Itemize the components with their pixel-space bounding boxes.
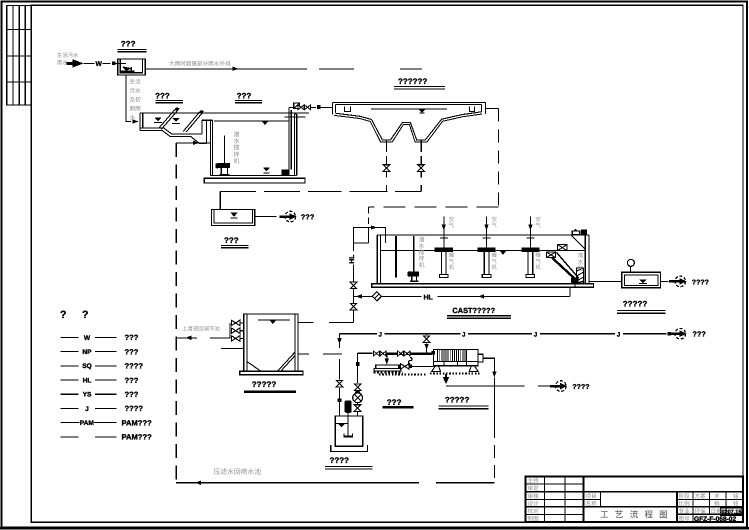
svg-text:机: 机 bbox=[492, 264, 498, 271]
supernatant return line bbox=[176, 337, 197, 339]
svg-text:???: ??? bbox=[125, 390, 139, 399]
tap water junction square bbox=[668, 332, 672, 336]
polymer pipe to press bbox=[358, 352, 373, 354]
sludge sump outlet pipe bbox=[255, 216, 277, 218]
adjusting tank floor bbox=[211, 175, 297, 177]
svg-text:工艺流程图: 工艺流程图 bbox=[600, 510, 674, 520]
svg-text:???: ??? bbox=[155, 91, 170, 100]
CAST tank rim bbox=[377, 234, 589, 236]
svg-text:J: J bbox=[85, 406, 89, 413]
svg-text:名称: 名称 bbox=[586, 501, 598, 508]
tap water main J bbox=[340, 333, 667, 335]
svg-text:项目: 项目 bbox=[586, 493, 597, 500]
sedimentation tank right wall bbox=[484, 102, 486, 114]
svg-text:气: 气 bbox=[449, 258, 455, 265]
decant valve header bbox=[229, 323, 231, 339]
HL propeller pump symbol bbox=[372, 292, 381, 301]
aerator 1 label bbox=[449, 252, 455, 271]
svg-text:生活污水: 生活污水 bbox=[57, 52, 79, 59]
thickener hopper diagonals bbox=[247, 362, 261, 372]
svg-text:???: ??? bbox=[387, 398, 402, 407]
svg-text:???: ??? bbox=[125, 333, 139, 342]
svg-text:W: W bbox=[84, 335, 91, 342]
svg-text:搅: 搅 bbox=[234, 144, 240, 152]
CAST right wall bbox=[584, 235, 586, 284]
svg-text:HL: HL bbox=[83, 377, 92, 384]
sedimentation tank rim bbox=[333, 101, 486, 103]
svg-text:YS: YS bbox=[83, 392, 92, 399]
adjusting tank inlet drop box bbox=[201, 120, 203, 134]
aerator 2 label bbox=[492, 252, 498, 271]
right weir box bbox=[469, 107, 474, 112]
adjusting tank overflow stub bbox=[285, 116, 306, 118]
metering pump suction bbox=[357, 412, 359, 416]
press filtrate pipe bbox=[483, 358, 495, 373]
channel water level 1 bbox=[154, 117, 161, 121]
svg-text:J: J bbox=[534, 332, 538, 339]
svg-text:图号: 图号 bbox=[679, 516, 691, 523]
svg-text:器: 器 bbox=[578, 266, 584, 273]
svg-text:?????: ????? bbox=[623, 300, 648, 309]
svg-text:空: 空 bbox=[535, 216, 540, 223]
press motor bbox=[478, 354, 483, 362]
decanter label vertical bbox=[578, 253, 584, 273]
svg-text:???: ??? bbox=[121, 40, 136, 49]
svg-text:压滤水回喷水池: 压滤水回喷水池 bbox=[214, 468, 262, 476]
svg-text:曝: 曝 bbox=[449, 252, 455, 259]
svg-text:校对: 校对 bbox=[528, 508, 540, 515]
low level mark near pump bbox=[263, 167, 270, 171]
pump riser pipe bbox=[288, 108, 290, 170]
svg-text:J: J bbox=[617, 332, 621, 339]
dosing tank cradle bbox=[331, 445, 368, 451]
metering pump bbox=[353, 393, 363, 403]
svg-text:SQ: SQ bbox=[82, 363, 92, 370]
svg-text:污水: 污水 bbox=[130, 88, 142, 95]
title block role labels bbox=[528, 478, 740, 523]
svg-text:曝: 曝 bbox=[535, 252, 541, 259]
svg-text:铭: 铭 bbox=[733, 501, 739, 508]
svg-text:气: 气 bbox=[535, 258, 541, 265]
hopper drain 2 bbox=[420, 140, 422, 152]
CAST mixer mast bbox=[413, 236, 415, 272]
svg-text:?????: ????? bbox=[445, 396, 470, 405]
svg-text:?????: ????? bbox=[252, 380, 277, 389]
sludge sump discharge symbol bbox=[279, 211, 296, 222]
svg-text:???: ??? bbox=[224, 236, 239, 245]
CAST bottom pump bbox=[571, 277, 579, 283]
sedimentation tank hopper floor outer bbox=[334, 114, 482, 142]
svg-text:J: J bbox=[462, 332, 466, 339]
svg-text:0207.15: 0207.15 bbox=[722, 510, 742, 516]
svg-text:大雨时超量部分雨水外排: 大雨时超量部分雨水外排 bbox=[169, 61, 231, 68]
thickener sludge inlet stub bbox=[221, 347, 244, 349]
legend row W line bbox=[61, 336, 79, 338]
svg-text:曝: 曝 bbox=[492, 252, 498, 259]
agitator motor bbox=[345, 401, 352, 413]
svg-text:空: 空 bbox=[449, 216, 454, 223]
pipe inside well bbox=[118, 62, 126, 64]
sedimentation tank hopper floor inner bbox=[335, 112, 481, 140]
downpipe label vertical bbox=[130, 79, 142, 122]
legend row PAM line bbox=[61, 422, 80, 424]
CAST effluent pipe bbox=[589, 280, 622, 282]
svg-text:???: ??? bbox=[125, 347, 139, 356]
svg-text:气: 气 bbox=[492, 258, 498, 265]
svg-text:水: 水 bbox=[578, 259, 584, 266]
downpipe from screen well bbox=[126, 75, 131, 121]
screw pump base bbox=[374, 371, 404, 373]
thickener sludge outlet bbox=[298, 353, 309, 355]
svg-text:PAM???: PAM??? bbox=[122, 418, 153, 427]
svg-text:上清液回调节池: 上清液回调节池 bbox=[182, 326, 220, 333]
svg-text:HL: HL bbox=[424, 294, 434, 301]
svg-text:空: 空 bbox=[492, 216, 497, 223]
CAST pump under-tank pipe bbox=[570, 283, 575, 296]
svg-text:术: 术 bbox=[714, 493, 720, 500]
svg-text:生活: 生活 bbox=[130, 79, 142, 86]
bar screen 1 bbox=[159, 109, 176, 128]
svg-text:拌: 拌 bbox=[234, 150, 240, 158]
adjusting tank left wall bbox=[210, 120, 212, 175]
cake discharge symbol bbox=[550, 381, 567, 392]
sludge drain header dashed to sludge sump bbox=[220, 190, 421, 192]
HL bottom line bbox=[354, 295, 422, 297]
svg-text:机: 机 bbox=[535, 264, 541, 271]
svg-text:机: 机 bbox=[234, 157, 240, 165]
filtrate return bottom loop bbox=[176, 482, 419, 484]
HL riser valve 2 bbox=[350, 303, 357, 310]
decant valve 1 bbox=[240, 322, 244, 324]
channel water level 2 bbox=[172, 118, 179, 122]
svg-text:气: 气 bbox=[492, 222, 498, 229]
dosing tank water line bbox=[336, 422, 347, 424]
filtrate return riser dashed bbox=[175, 143, 177, 483]
agitator shaft bbox=[347, 413, 349, 437]
CAST mixer body bbox=[408, 271, 410, 277]
screen channel floor bbox=[140, 128, 202, 134]
sedimentation tank left wall bbox=[332, 102, 334, 114]
svg-text:稍: 稍 bbox=[714, 501, 720, 508]
sludge thickener tank bbox=[244, 314, 298, 371]
cake haul line bbox=[446, 385, 525, 387]
aerator 3 bbox=[522, 217, 539, 278]
svg-text:NP: NP bbox=[82, 349, 92, 356]
svg-text:??????: ?????? bbox=[398, 77, 427, 86]
junction square bbox=[112, 62, 116, 66]
CAST water line bbox=[381, 250, 586, 252]
decanter guide diagonal bbox=[571, 235, 586, 250]
legend row NP line bbox=[61, 351, 79, 353]
screw pump bbox=[376, 365, 399, 369]
storm overflow pipe bbox=[145, 68, 247, 70]
sludge sump level bbox=[230, 213, 237, 217]
press legs bbox=[432, 366, 441, 372]
adjusting tank right wall bbox=[293, 114, 295, 176]
svg-text:?: ? bbox=[82, 309, 88, 321]
thickener overflow connection bbox=[329, 321, 354, 323]
thick sludge feed pipe bbox=[386, 352, 432, 354]
CAST mixer label vertical bbox=[419, 237, 425, 270]
svg-text:水: 水 bbox=[234, 137, 240, 145]
CAST baffle bbox=[395, 236, 397, 277]
measuring tank bbox=[622, 272, 661, 288]
legend row HL line bbox=[61, 379, 79, 381]
title block grid bbox=[526, 476, 744, 522]
feed pipe end flange bbox=[431, 351, 435, 355]
decant valve 2 bbox=[240, 330, 244, 332]
legend row YS line bbox=[61, 393, 79, 395]
adjusting tank water level line bbox=[214, 120, 289, 122]
svg-text:气: 气 bbox=[449, 222, 455, 229]
drop to screw pump bbox=[386, 354, 388, 361]
hopper drain 1 bbox=[386, 140, 388, 152]
ground hatch under screw pump bbox=[379, 374, 426, 376]
metering pump valve upper bbox=[354, 384, 361, 391]
thickener water line bbox=[258, 319, 290, 321]
svg-text:????: ???? bbox=[125, 362, 144, 371]
check valve bbox=[294, 103, 300, 109]
effluent outfall symbol bbox=[669, 276, 686, 287]
svg-text:审核: 审核 bbox=[528, 493, 540, 500]
inlet bold arrow bbox=[67, 59, 84, 67]
measuring tank flag bbox=[629, 266, 631, 272]
HL return riser bbox=[353, 228, 355, 252]
decanter hoist on wall top bbox=[581, 229, 587, 234]
aerator 2 air label bbox=[492, 216, 498, 229]
svg-text:???: ??? bbox=[301, 213, 315, 222]
metering pump discharge riser bbox=[357, 353, 359, 383]
feed pipe double valve 2 bbox=[398, 351, 410, 356]
HL riser valve 1 bbox=[350, 282, 357, 289]
press internal lines bbox=[433, 361, 478, 363]
svg-text:日期: 日期 bbox=[711, 508, 723, 515]
svg-text:水: 水 bbox=[419, 243, 425, 250]
svg-text:比例: 比例 bbox=[679, 501, 691, 508]
svg-text:机: 机 bbox=[449, 264, 455, 271]
CAST inlet box bbox=[354, 228, 386, 243]
decanter float box 1 bbox=[558, 245, 568, 251]
sedimentation effluent pipe bbox=[485, 108, 498, 110]
sludge sump inlet stub bbox=[219, 191, 221, 209]
decanter hatched column bbox=[577, 268, 584, 283]
top rim line of channel and adjusting tank bbox=[140, 112, 309, 114]
svg-text:HL: HL bbox=[349, 255, 356, 264]
thickener base slab bbox=[240, 371, 303, 374]
left weir box bbox=[345, 107, 351, 112]
svg-text:制图: 制图 bbox=[528, 515, 540, 522]
press rollers hatch bbox=[438, 350, 465, 361]
decanter articulated arm bbox=[552, 258, 577, 281]
svg-text:????: ???? bbox=[572, 384, 589, 391]
svg-text:专业: 专业 bbox=[679, 508, 691, 515]
screw pump outlet pipe bbox=[399, 365, 433, 367]
screen well tank bbox=[118, 59, 146, 75]
submersible mixer body bbox=[216, 163, 218, 169]
svg-text:???: ??? bbox=[692, 330, 706, 339]
svg-text:????: ???? bbox=[125, 404, 144, 413]
svg-text:机: 机 bbox=[419, 262, 425, 269]
filtrate return top elbow into adjusting tank bbox=[176, 142, 210, 144]
screen glyph inside well bbox=[121, 70, 135, 72]
wash water drop to press bbox=[426, 334, 428, 335]
CAST bottom slab bbox=[372, 284, 594, 288]
pipe to sedimentation tank bbox=[311, 106, 317, 108]
outlet valve bbox=[401, 364, 409, 369]
drawing outer border bottom thick line bbox=[0, 527, 749, 530]
svg-text:PAM: PAM bbox=[80, 420, 95, 427]
svg-text:环保: 环保 bbox=[695, 508, 707, 515]
svg-text:审定: 审定 bbox=[528, 485, 540, 492]
svg-text:期雨: 期雨 bbox=[130, 106, 142, 113]
svg-text:???: ??? bbox=[125, 376, 139, 385]
cake drop bbox=[445, 374, 447, 380]
svg-text:?: ? bbox=[60, 309, 66, 321]
measuring tank level bbox=[639, 279, 646, 283]
submersible mixer label vertical bbox=[234, 131, 240, 165]
aerator 1 bbox=[435, 217, 452, 278]
svg-text:及初: 及初 bbox=[130, 97, 142, 104]
CAST left wall bbox=[376, 235, 378, 284]
svg-text:阶段: 阶段 bbox=[679, 493, 691, 500]
adjusting tank base slab bbox=[204, 178, 305, 183]
dosing mix tank bbox=[335, 416, 362, 446]
screen channel left wall bbox=[139, 113, 141, 130]
svg-text:潜: 潜 bbox=[234, 131, 240, 139]
svg-text:????: ???? bbox=[692, 280, 709, 287]
decant valve 3 bbox=[240, 337, 244, 339]
belt filter press body bbox=[433, 349, 478, 365]
polymer pipe double valve bbox=[374, 351, 386, 356]
svg-text:???: ??? bbox=[237, 91, 252, 100]
svg-text:铭: 铭 bbox=[733, 493, 739, 500]
svg-text:气: 气 bbox=[535, 222, 541, 229]
gate valves on riser bbox=[298, 105, 310, 110]
aerator 1 air label bbox=[449, 216, 455, 229]
svg-text:搅: 搅 bbox=[419, 249, 425, 256]
svg-text:滗: 滗 bbox=[578, 253, 584, 260]
bar screen 2 bbox=[183, 112, 199, 131]
adjusting tank lift pump bbox=[282, 169, 290, 175]
signature strip table top-left bbox=[7, 5, 31, 105]
dosing feed drop bbox=[339, 334, 341, 348]
svg-text:J: J bbox=[379, 332, 383, 339]
legend row J line bbox=[61, 407, 79, 409]
sludge sump tank bbox=[212, 209, 255, 225]
dosing feed valve bbox=[336, 380, 343, 387]
decanter float box 2 bbox=[546, 252, 555, 258]
ground hatch under press bbox=[430, 373, 481, 375]
pipe to screen well bbox=[116, 62, 127, 64]
svg-text:潜: 潜 bbox=[419, 237, 425, 244]
aerator 3 air label bbox=[535, 216, 541, 229]
svg-text:CAST?????: CAST????? bbox=[452, 306, 495, 315]
svg-text:????: ???? bbox=[330, 456, 350, 465]
svg-text:设计: 设计 bbox=[528, 500, 540, 507]
svg-text:拌: 拌 bbox=[419, 256, 425, 263]
svg-text:方案: 方案 bbox=[695, 493, 707, 500]
inlet pipe W bbox=[84, 62, 95, 64]
agitator impeller bbox=[343, 435, 352, 437]
arrow into screen channel bbox=[133, 119, 139, 123]
submersible mixer mast bbox=[224, 135, 226, 163]
metering pump valve lower bbox=[354, 405, 361, 412]
svg-text:PAM???: PAM??? bbox=[122, 433, 153, 442]
sampling S symbol bbox=[408, 357, 412, 364]
aerator 2 bbox=[478, 217, 495, 278]
legend row dashed line bbox=[61, 436, 79, 438]
legend row SQ line bbox=[61, 365, 79, 367]
aerator 3 label bbox=[535, 252, 541, 271]
svg-text:W: W bbox=[96, 61, 103, 68]
svg-text:GFZ-F-068-02: GFZ-F-068-02 bbox=[694, 516, 736, 523]
sedimentation tank water line bbox=[371, 108, 447, 110]
tap water source symbol bbox=[669, 328, 686, 339]
effluent outfall pipe bbox=[661, 280, 669, 282]
svg-text:主持: 主持 bbox=[528, 478, 540, 485]
